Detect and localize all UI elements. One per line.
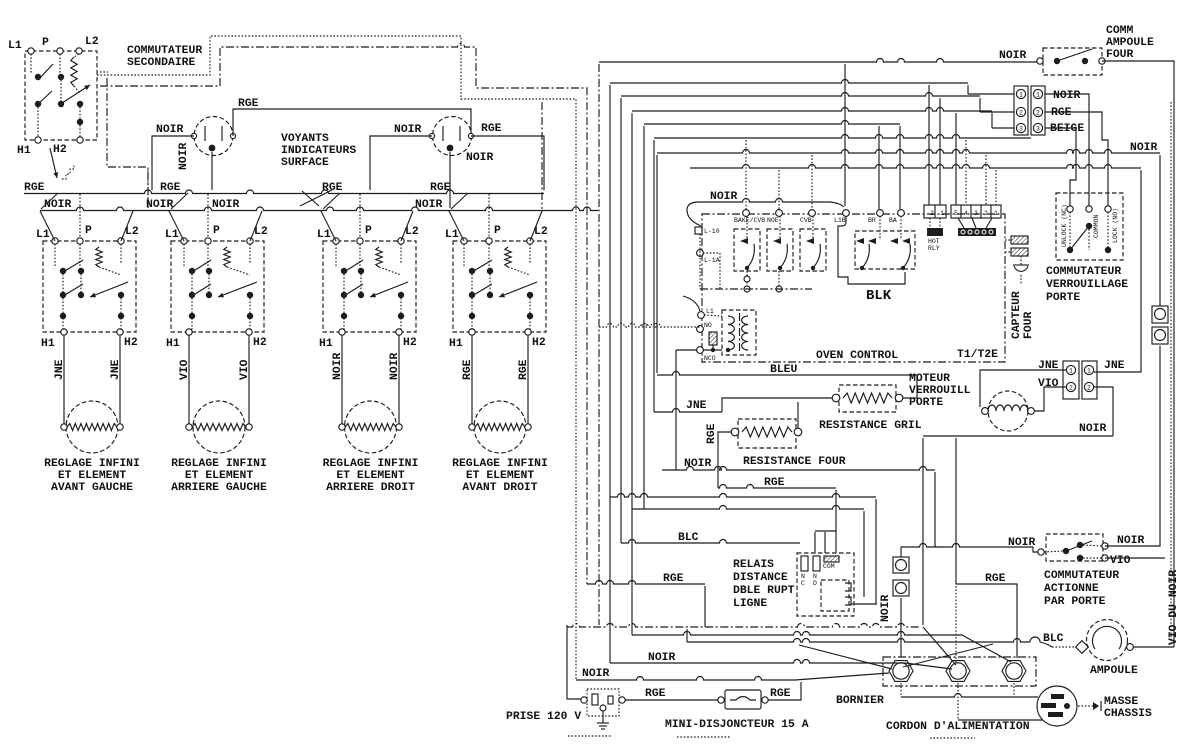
U1 relay drops [744, 286, 750, 292]
svg-text:1: 1 [940, 210, 944, 217]
svg-text:CVB: CVB [800, 217, 812, 224]
svg-text:VIO: VIO [1110, 555, 1131, 567]
svg-text:H1: H1 [449, 338, 463, 350]
commutateur verrouillage porte box [1056, 193, 1123, 260]
svg-text:BAKE/CVB: BAKE/CVB [734, 217, 765, 224]
U1 L-1A drop [703, 253, 720, 289]
svg-text:BLEU: BLEU [770, 364, 798, 376]
svg-text:NOIR: NOIR [394, 124, 422, 136]
svg-text:RGE: RGE [430, 182, 451, 194]
wire RGE to lock NO [1045, 112, 1108, 206]
SW0 contacts [35, 74, 41, 80]
P3 pins row 1 [1016, 89, 1025, 98]
R5 terminals [832, 394, 840, 402]
wire JNE [654, 409, 722, 412]
svg-text:RGE: RGE [518, 359, 530, 380]
svg-text:LOCK (NO): LOCK (NO) [1112, 208, 1119, 243]
wire SW0 path A [97, 36, 576, 680]
wire F1 to door switch [900, 547, 902, 557]
svg-text:CAPTEUR: CAPTEUR [1011, 291, 1023, 339]
ampoule right terminal [1127, 644, 1134, 651]
svg-text:BA: BA [889, 217, 897, 224]
wire nest y96 [620, 98, 622, 543]
wire dashdot x542 [541, 102, 543, 209]
svg-text:L1B: L1B [834, 217, 846, 224]
wire DS2 noir [370, 136, 432, 190]
svg-text:NOIR: NOIR [684, 458, 712, 470]
U1 dbl relay contact x908 [902, 238, 910, 244]
svg-text:RGE: RGE [24, 182, 45, 194]
U1 relay K at x767 [767, 229, 793, 271]
TB1 terminal x958 [946, 661, 970, 682]
U1 L1B common bar [838, 216, 905, 284]
svg-text:MASSE: MASSE [1104, 696, 1138, 708]
wire F2 to bornier [900, 598, 902, 657]
DS1 terminals [191, 133, 196, 138]
svg-text:H2: H2 [124, 337, 138, 349]
svg-text:NOIR: NOIR [178, 142, 190, 170]
svg-text:RGE: RGE [462, 359, 474, 380]
svg-text:SECONDAIRE: SECONDAIRE [127, 57, 196, 69]
wire DS1 noir [152, 136, 194, 190]
capteur sensor coil 1 [1011, 236, 1028, 244]
5-pin fan wires [958, 218, 964, 228]
wire drop x148 [147, 170, 149, 208]
wire TB1 left down [900, 683, 902, 697]
door switch blade [1066, 541, 1092, 551]
svg-text:COMMUTATEUR: COMMUTATEUR [1044, 570, 1119, 582]
SW0 step wire [62, 164, 74, 179]
scan marks [568, 735, 612, 737]
wire bus y153 [657, 150, 1160, 154]
wire NOIR y663 [610, 660, 905, 664]
wire x864 down [863, 511, 865, 597]
prise 120V box [587, 689, 619, 716]
wire y627 dashdot [567, 624, 921, 627]
bus transfer blades [41, 193, 58, 209]
U1 BR BA drops [879, 216, 881, 240]
lamp switch blade [1057, 49, 1092, 61]
door switch contacts [1038, 549, 1044, 555]
svg-text:L2: L2 [405, 226, 419, 238]
wire diag to bornier 3 [962, 635, 1011, 662]
svg-text:BEIGE: BEIGE [1050, 123, 1084, 135]
svg-text:CORDON D'ALIMENTATION: CORDON D'ALIMENTATION [886, 721, 1030, 733]
wire x687 down [686, 629, 688, 642]
svg-text:L1: L1 [8, 40, 22, 52]
svg-text:N: N [801, 573, 805, 580]
SW0 blades [38, 64, 53, 80]
wire x876 down [875, 499, 877, 604]
moteur verrouillage M1 [988, 391, 1028, 431]
wire door switch VIO [1105, 557, 1165, 559]
svg-text:L1: L1 [445, 229, 459, 241]
CB1 element [730, 697, 756, 701]
wire RGE prise to breaker [625, 699, 718, 701]
connector HOT RLY top [924, 205, 946, 218]
svg-text:ACTIONNE: ACTIONNE [1044, 583, 1099, 595]
svg-text:RGE: RGE [160, 182, 181, 194]
T1 leads [704, 315, 722, 316]
svg-text:H2: H2 [253, 337, 267, 349]
svg-text:H1: H1 [17, 145, 31, 157]
U1 transformer T1 box [722, 310, 756, 355]
svg-text:COM: COM [823, 563, 835, 570]
U1 relay drop 1 [744, 276, 750, 282]
element R3 arriere droit [345, 401, 397, 453]
R6 element [742, 427, 792, 437]
wire NOIR y436 [923, 435, 1113, 437]
svg-text:NOIR: NOIR [332, 352, 344, 380]
svg-text:COMMON: COMMON [1093, 214, 1100, 238]
svg-text:NOIR: NOIR [1117, 535, 1145, 547]
connector pair P3 [1014, 86, 1028, 135]
resistance gril R5 box [839, 385, 896, 412]
svg-text:ET ELEMENT: ET ELEMENT [336, 470, 405, 482]
svg-text:ET ELEMENT: ET ELEMENT [58, 470, 127, 482]
svg-text:2: 2 [930, 210, 934, 217]
svg-text:H1: H1 [319, 338, 333, 350]
svg-text:BORNIER: BORNIER [836, 695, 884, 707]
connector P4 pair [1063, 361, 1079, 399]
element R4 avant droit [474, 401, 526, 453]
svg-text:L1: L1 [36, 229, 50, 241]
svg-text:NOIR: NOIR [212, 199, 240, 211]
wire diag to bornier 2 [905, 663, 952, 669]
svg-text:H2: H2 [53, 144, 67, 156]
SW0 resistor leads [74, 54, 79, 57]
lock switch contacts [1086, 223, 1092, 229]
svg-text:P: P [365, 225, 372, 237]
fuse F2 [893, 580, 909, 596]
svg-text:P: P [494, 225, 501, 237]
svg-text:CHASSIS: CHASSIS [1104, 708, 1152, 720]
svg-text:H2: H2 [532, 337, 546, 349]
svg-text:2: 2 [984, 210, 988, 217]
capteur leads [1005, 239, 1011, 241]
svg-text:NCO: NCO [704, 355, 716, 362]
DS1 internals [204, 126, 206, 141]
wire x705 down [704, 586, 706, 627]
svg-text:2: 2 [1019, 110, 1023, 117]
svg-text:P: P [85, 225, 92, 237]
svg-text:NOIR: NOIR [880, 594, 892, 622]
svg-text:COMMUTATEUR: COMMUTATEUR [1046, 266, 1121, 278]
svg-text:HOT: HOT [928, 238, 940, 245]
U1 dbl relay contact x874 [868, 238, 876, 244]
svg-text:RESISTANCE GRIL: RESISTANCE GRIL [819, 420, 922, 432]
U1 bottom bus [700, 288, 812, 290]
bornier TB1 box [883, 657, 1036, 686]
fuse F4 [1152, 327, 1168, 344]
svg-text:FOUR: FOUR [1023, 311, 1035, 339]
wire right edge NOIR [1102, 61, 1174, 647]
wire SW0 right drop [107, 78, 148, 208]
wire RGE lamp link [233, 109, 471, 136]
U1 dbl relay blade 2 [903, 244, 910, 268]
svg-text:N: N [813, 573, 817, 580]
svg-text:L-10: L-10 [704, 228, 720, 235]
voyant lamp DS2 [433, 117, 472, 156]
svg-text:DISTANCE: DISTANCE [733, 572, 788, 584]
svg-text:COMMUTATEUR: COMMUTATEUR [127, 45, 202, 57]
commutateur secondaire SW0 box [25, 51, 97, 140]
connector 5-pin body [958, 228, 996, 236]
svg-text:P: P [213, 225, 220, 237]
svg-text:PORTE: PORTE [909, 397, 943, 409]
svg-text:4: 4 [964, 210, 968, 217]
lock switch drops [1069, 212, 1071, 247]
wire NOIR y470 [662, 467, 935, 470]
T1 relay coil [709, 332, 717, 345]
wire NOIR L-10 to L1B [687, 199, 844, 227]
wire DS2 to RGE bus [471, 136, 544, 190]
svg-text:JNE: JNE [110, 359, 122, 380]
masse chassis plug [1037, 686, 1077, 726]
wire K1 right stub [851, 603, 877, 605]
svg-text:DBLE RUPT: DBLE RUPT [733, 585, 795, 597]
wire NOIR y680 [576, 677, 795, 681]
HOT RLY pins [929, 218, 931, 228]
svg-text:1: 1 [1036, 92, 1040, 99]
svg-text:D: D [813, 580, 817, 587]
svg-text:NOIR: NOIR [156, 124, 184, 136]
comm ampoule four switch box [1043, 48, 1102, 75]
K1 coil NC [801, 556, 808, 571]
svg-text:JNE: JNE [54, 359, 66, 380]
wire NOIR bus [40, 207, 598, 210]
T1 coil drop [712, 345, 714, 350]
wire door switch NOIR up [1105, 346, 1160, 546]
svg-text:L2: L2 [254, 226, 268, 238]
svg-text:REGLAGE INFINI: REGLAGE INFINI [171, 458, 267, 470]
burner switch SW2 (arriere gauche) [171, 241, 264, 332]
svg-text:VIO: VIO [239, 359, 251, 380]
T1 secondary coil [742, 316, 748, 350]
prise terminals [581, 697, 587, 703]
svg-text:VIO: VIO [179, 359, 191, 380]
door switch out terminals [1102, 543, 1108, 549]
T1 primary coil [728, 316, 734, 350]
relais feed wires [814, 532, 816, 553]
wire y635 [632, 632, 962, 636]
U1 dbl relay contact x896 [890, 238, 898, 244]
SW0 terminals L1 P L2 [28, 48, 34, 54]
svg-text:PAR PORTE: PAR PORTE [1044, 596, 1106, 608]
svg-text:NOIR: NOIR [648, 652, 676, 664]
connector HOT RLY body [927, 228, 943, 236]
svg-text:OVEN CONTROL: OVEN CONTROL [816, 350, 898, 362]
svg-text:RGE: RGE [1051, 107, 1072, 119]
svg-text:ARRIERE GAUCHE: ARRIERE GAUCHE [171, 482, 267, 494]
svg-text:L2: L2 [85, 36, 99, 48]
svg-text:ARRIERE DROIT: ARRIERE DROIT [326, 482, 415, 494]
U1 terminal BAKE/CVB [743, 210, 750, 217]
svg-text:NOIR: NOIR [44, 199, 72, 211]
wire R6 left down [718, 432, 731, 488]
wire bus y509 [632, 506, 864, 510]
T1 terminals [698, 312, 705, 319]
capteur sensor coil 2 [1011, 248, 1028, 256]
svg-text:PRISE 120 V: PRISE 120 V [506, 711, 581, 723]
wire DS2 dot drop [449, 152, 451, 208]
lock switch terminals [1067, 206, 1073, 212]
svg-text:NOIR: NOIR [1053, 90, 1081, 102]
svg-text:1: 1 [1087, 368, 1091, 375]
svg-text:RLY: RLY [928, 245, 940, 252]
wire BEIGE to lock NC [1045, 128, 1076, 206]
K1 inner box [821, 580, 849, 611]
svg-text:1: 1 [1019, 92, 1023, 99]
U1 dbl relay blade 1 [862, 244, 869, 268]
svg-text:AMPOULE: AMPOULE [1090, 665, 1138, 677]
svg-text:MOTEUR: MOTEUR [909, 373, 950, 385]
svg-text:RGE: RGE [645, 688, 666, 700]
svg-text:NOIR: NOIR [389, 352, 401, 380]
svg-text:REGLAGE INFINI: REGLAGE INFINI [323, 458, 419, 470]
svg-text:5: 5 [954, 210, 958, 217]
svg-text:SURFACE: SURFACE [281, 157, 329, 169]
wire dashdot x599 [598, 64, 600, 625]
svg-text:3: 3 [1036, 126, 1040, 133]
wire CB1 to NOIR y680 [768, 682, 801, 700]
ampoule left terminal [1076, 641, 1089, 654]
resistance four R6 box [738, 419, 796, 448]
U1 terminal NOE [776, 210, 783, 217]
fuse F3 [1152, 306, 1168, 323]
svg-text:RGE: RGE [663, 573, 684, 585]
svg-text:NOE: NOE [767, 217, 779, 224]
burner switch SW1 (avant gauche) [43, 241, 136, 332]
svg-text:RGE: RGE [322, 182, 343, 194]
svg-text:L2: L2 [125, 226, 139, 238]
K1 common bar [824, 556, 839, 562]
TB1 terminal x901 [889, 661, 913, 682]
svg-text:VERROUILL: VERROUILL [909, 385, 971, 397]
prise ground pin [600, 705, 606, 711]
oven control board U1 box [702, 214, 1005, 362]
U1 L-10 drop [699, 234, 701, 289]
wire path B to RGE [100, 44, 587, 585]
svg-text:3: 3 [974, 210, 978, 217]
capteur cap arc [1014, 266, 1028, 271]
P3 pins row 3 [1016, 123, 1025, 132]
svg-text:H2: H2 [403, 337, 417, 349]
wire RGE y584 [587, 581, 705, 585]
svg-text:1: 1 [994, 210, 998, 217]
svg-text:H1: H1 [166, 338, 180, 350]
svg-text:NOIR: NOIR [1130, 142, 1158, 154]
mini-disjoncteur CB1 box [725, 690, 761, 709]
svg-text:L1: L1 [165, 229, 179, 241]
U1 terminal BA [898, 210, 905, 217]
svg-text:RGE: RGE [764, 477, 785, 489]
svg-text:BLC: BLC [678, 532, 699, 544]
svg-text:LIGNE: LIGNE [733, 598, 767, 610]
svg-text:ET ELEMENT: ET ELEMENT [185, 470, 254, 482]
wire nest y138 to BAKE [653, 140, 655, 412]
ampoule inner arc [1093, 626, 1122, 649]
relais distance K1 box [797, 553, 854, 616]
svg-text:REGLAGE INFINI: REGLAGE INFINI [44, 458, 140, 470]
svg-text:NOIR: NOIR [582, 668, 610, 680]
wire bus y168 [690, 165, 1141, 168]
SW0 pointer arrow [50, 148, 57, 178]
R6 terminals [731, 428, 739, 436]
plug pin [1064, 703, 1070, 709]
wire diag bornier 1 to BLC [903, 644, 993, 667]
svg-text:RESISTANCE FOUR: RESISTANCE FOUR [743, 456, 846, 468]
svg-text:UNLOCK (NC): UNLOCK (NC) [1061, 204, 1068, 247]
fuse F1 [893, 557, 909, 573]
svg-text:2: 2 [1036, 110, 1040, 117]
svg-text:VIO: VIO [1038, 378, 1059, 390]
U1 dbl relay contact x862 [856, 238, 864, 244]
masse arrow [1078, 705, 1093, 707]
scan mark top left [100, 71, 108, 73]
svg-text:RGE: RGE [770, 688, 791, 700]
svg-text:RELAIS: RELAIS [733, 559, 774, 571]
SW0 contact drops [37, 107, 39, 137]
svg-text:RGE: RGE [238, 98, 259, 110]
svg-text:BLC: BLC [1043, 633, 1064, 645]
SW0 internal drops [30, 54, 32, 74]
svg-text:NO: NO [704, 322, 712, 329]
door switch links [1044, 551, 1063, 552]
wire TB1 mid down [957, 683, 959, 720]
wire diag to bornier 1b [799, 645, 892, 669]
svg-text:NOIR: NOIR [1008, 537, 1036, 549]
DS2 internals [442, 126, 444, 141]
wire TB1 right down [1013, 683, 1015, 697]
element R1 avant gauche [66, 401, 118, 453]
P4 pins row 2 [1066, 382, 1075, 391]
wire nest y83 [609, 85, 611, 663]
svg-text:AVANT DROIT: AVANT DROIT [462, 482, 537, 494]
U1 terminal BR [877, 210, 884, 217]
wire to T1 NO [599, 324, 700, 328]
connector 5-pin top [951, 205, 1001, 218]
wire BLEU [657, 372, 917, 376]
P4 pins row 1 [1066, 365, 1075, 374]
svg-text:VERROUILLAGE: VERROUILLAGE [1046, 279, 1128, 291]
wire x935 down [934, 472, 936, 545]
plug blades [1051, 694, 1064, 699]
wire BLC y543 [621, 540, 800, 543]
svg-text:RGE: RGE [481, 123, 502, 135]
svg-text:RGE: RGE [706, 423, 718, 444]
svg-text:VIO DU NOIR: VIO DU NOIR [1168, 570, 1180, 645]
svg-text:AVANT GAUCHE: AVANT GAUCHE [51, 482, 133, 494]
K1 tabs [845, 583, 851, 591]
5-pin body holes [961, 230, 965, 234]
wire bus y497 [610, 494, 876, 498]
svg-text:C: C [801, 580, 805, 587]
wire T1 NCO down [676, 349, 697, 351]
svg-text:1: 1 [1069, 368, 1073, 375]
U1 terminal L-1A [697, 250, 704, 257]
bus crossover X [300, 190, 332, 206]
svg-text:NOIR: NOIR [1079, 423, 1107, 435]
svg-text:3: 3 [1019, 126, 1023, 133]
svg-text:L1: L1 [706, 308, 714, 315]
svg-text:INDICATEURS: INDICATEURS [281, 145, 356, 157]
wire ampoule to right edge [1134, 646, 1174, 648]
P3 pins row 2 [1016, 107, 1025, 116]
svg-text:VOYANTS: VOYANTS [281, 133, 329, 145]
U1 terminal L-10 [695, 227, 702, 234]
U1 terminal L1B [843, 210, 850, 217]
